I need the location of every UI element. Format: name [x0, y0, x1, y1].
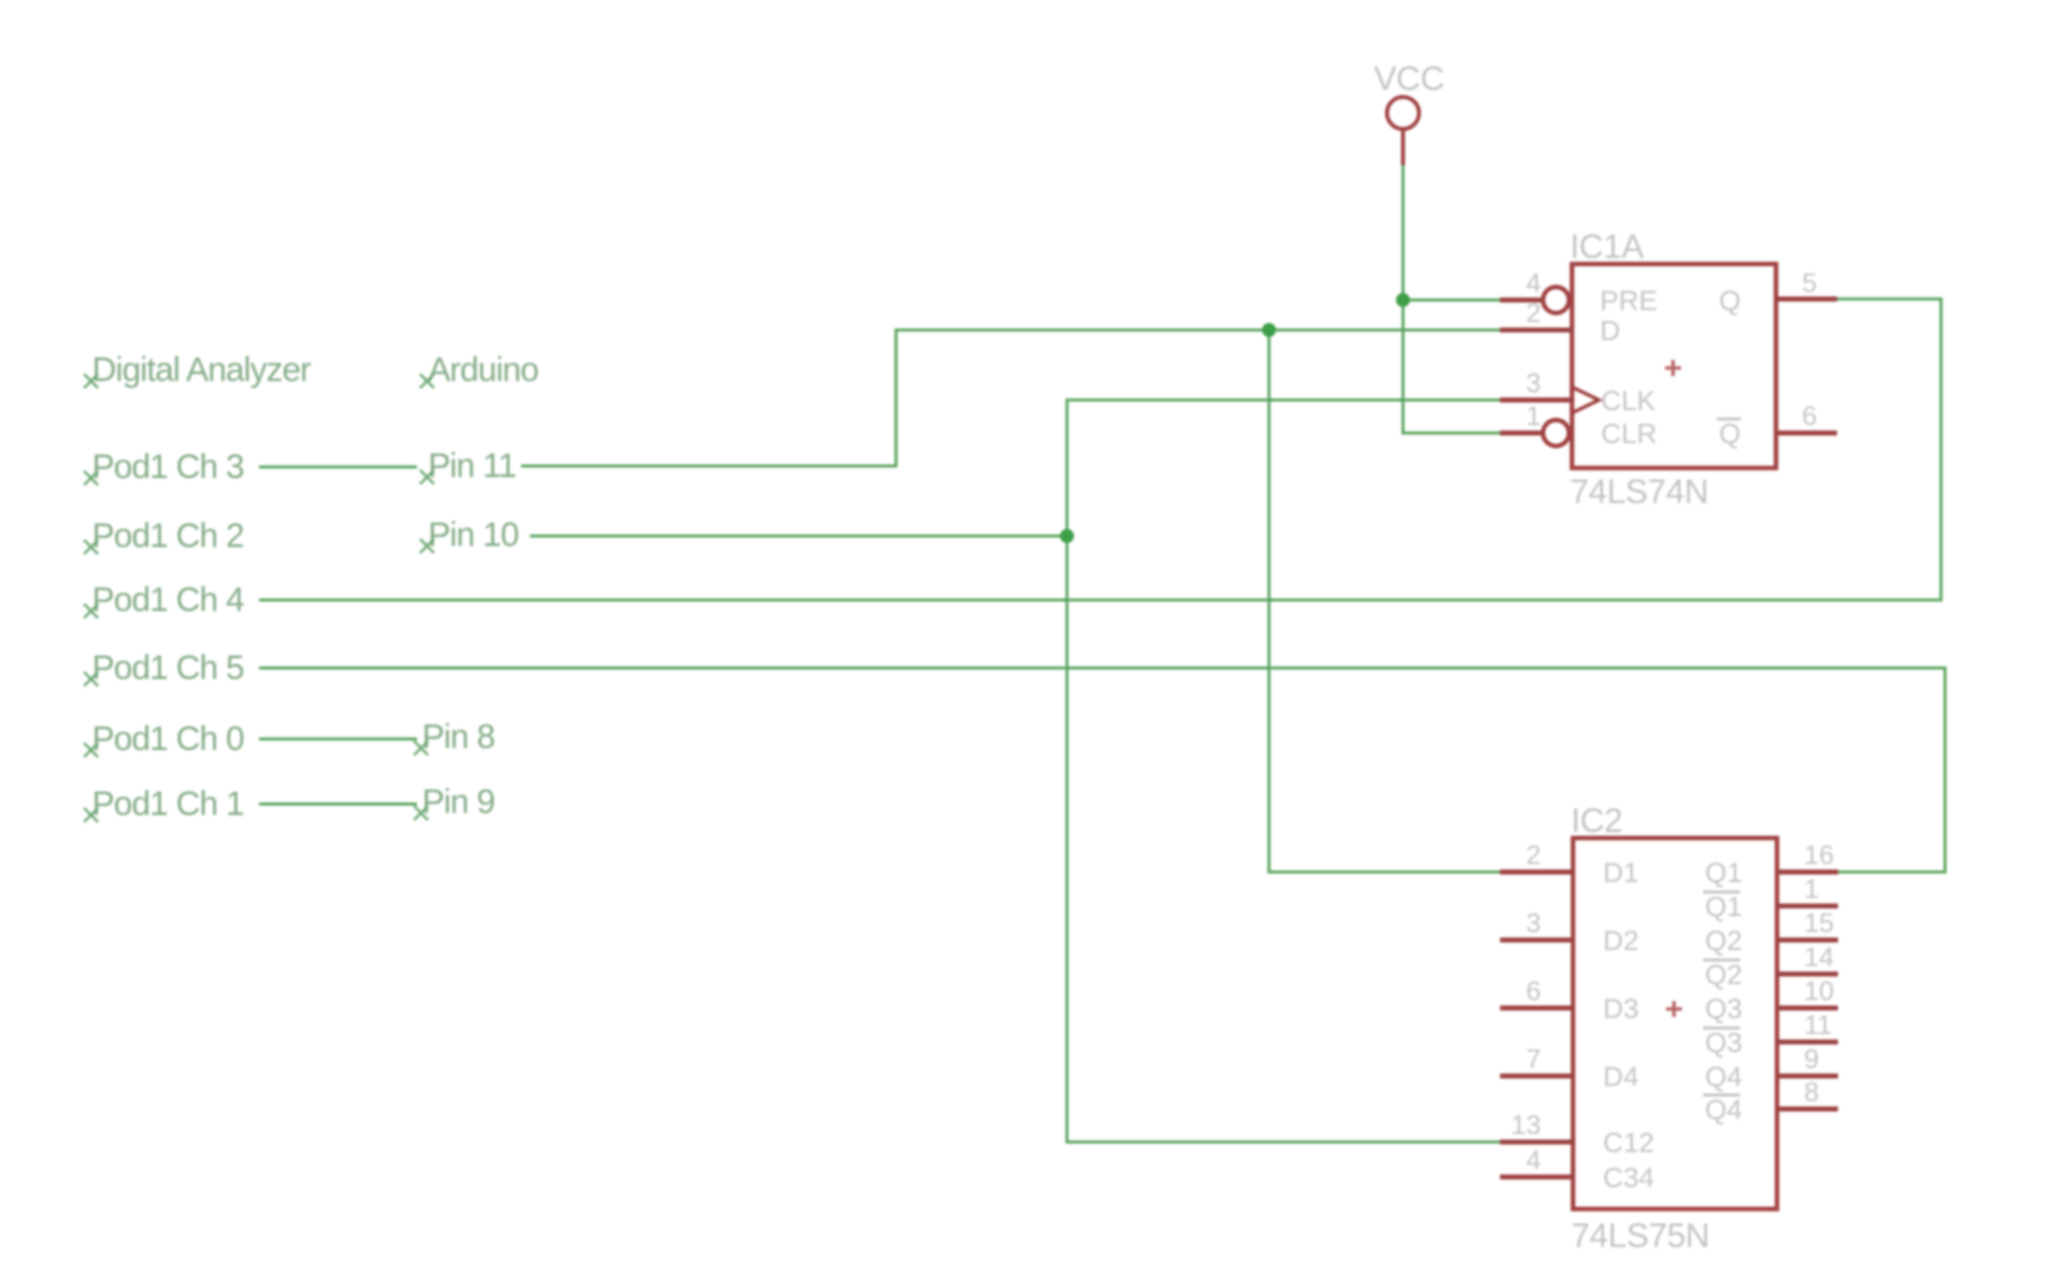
svg-text:Pod1 Ch 3: Pod1 Ch 3: [92, 448, 244, 486]
svg-text:2: 2: [1526, 840, 1541, 870]
wire Pod1 Ch 1 to Pin 9: [259, 803, 417, 806]
svg-text:Pod1 Ch 0: Pod1 Ch 0: [92, 720, 244, 758]
svg-text:Q4: Q4: [1705, 1094, 1742, 1125]
node origin cross Pin 8: [414, 741, 428, 755]
svg-text:16: 16: [1804, 840, 1834, 870]
svg-text:VCC: VCC: [1374, 60, 1444, 98]
svg-text:Pin 10: Pin 10: [428, 516, 518, 554]
wire Pin 10 to junction: [530, 535, 1067, 538]
wire Pod1 Ch 4 to Q of IC1A: [259, 299, 1941, 600]
wire CLK/C12 vertical: [1067, 400, 1502, 1142]
pin names IC2 left: [1603, 857, 1654, 1193]
svg-text:Pin 9: Pin 9: [422, 783, 495, 821]
svg-text:Arduino: Arduino: [428, 351, 538, 389]
node origin cross Pod1 Ch 1: [84, 808, 98, 822]
node origin cross Pin 11: [420, 470, 434, 484]
svg-text:74LS75N: 74LS75N: [1571, 1217, 1709, 1255]
svg-text:Q4: Q4: [1705, 1061, 1742, 1092]
node origin cross Digital Analyzer: [84, 374, 98, 388]
svg-text:7: 7: [1526, 1044, 1541, 1074]
power VCC symbol: [1387, 97, 1419, 165]
svg-text:13: 13: [1511, 1110, 1541, 1140]
pin numbers IC2 right: [1804, 840, 1834, 1107]
svg-text:Q1: Q1: [1705, 891, 1742, 922]
svg-text:Q2: Q2: [1705, 959, 1742, 990]
node origin cross Pod1 Ch 0: [84, 743, 98, 757]
svg-text:8: 8: [1804, 1077, 1819, 1107]
svg-text:PRE: PRE: [1600, 285, 1658, 316]
svg-text:10: 10: [1804, 976, 1834, 1006]
svg-text:Q: Q: [1719, 418, 1741, 449]
svg-text:IC1A: IC1A: [1570, 228, 1644, 266]
wire Pin 11 to D of IC1A: [521, 330, 1502, 466]
svg-text:Q3: Q3: [1705, 1027, 1742, 1058]
node origin cross Pod1 Ch 4: [84, 604, 98, 618]
svg-text:Pin 8: Pin 8: [422, 718, 495, 756]
node origin cross Pod1 Ch 3: [84, 471, 98, 485]
svg-text:D: D: [1600, 315, 1620, 346]
svg-text:5: 5: [1802, 268, 1817, 298]
node origin cross Pin 10: [420, 539, 434, 553]
svg-text:2: 2: [1526, 298, 1541, 328]
wire Pod1 Ch 3 to Pin 11: [259, 466, 417, 469]
svg-text:Q1: Q1: [1705, 857, 1742, 888]
svg-text:Digital Analyzer: Digital Analyzer: [92, 351, 311, 389]
wire Pod1 Ch 5 to Q1 of IC2: [259, 668, 1945, 872]
wire branch to D1 of IC2: [1269, 330, 1502, 872]
latch IC2 box 74LS75N: [1573, 838, 1777, 1209]
svg-text:6: 6: [1526, 976, 1541, 1006]
svg-text:CLK: CLK: [1601, 385, 1656, 416]
svg-text:9: 9: [1804, 1044, 1819, 1074]
pin names IC2 right: [1705, 857, 1742, 1125]
svg-text:15: 15: [1804, 908, 1834, 938]
svg-text:4: 4: [1526, 268, 1541, 298]
svg-text:6: 6: [1802, 401, 1817, 431]
pin stubs IC2 left: [1500, 872, 1573, 1177]
svg-text:1: 1: [1526, 401, 1541, 431]
svg-text:1: 1: [1804, 874, 1819, 904]
polarity mark IC1A: [1665, 360, 1681, 376]
op-amp IC1A box 74LS74N: [1543, 264, 1776, 468]
pin numbers IC2 left: [1511, 840, 1541, 1175]
svg-text:Pod1 Ch 4: Pod1 Ch 4: [92, 581, 244, 619]
svg-text:D1: D1: [1603, 857, 1639, 888]
pin numbers IC1A: [1526, 268, 1541, 431]
svg-text:CLR: CLR: [1601, 418, 1657, 449]
wire Pod1 Ch 0 to Pin 8: [259, 738, 417, 741]
pin names IC1A: [1600, 285, 1741, 449]
svg-text:C34: C34: [1603, 1162, 1654, 1193]
wire VCC net: [1403, 163, 1502, 433]
svg-text:C12: C12: [1603, 1127, 1654, 1158]
overlines Qbar IC2: [1703, 892, 1740, 1095]
svg-text:Pin 11: Pin 11: [428, 447, 516, 485]
svg-text:Pod1 Ch 5: Pod1 Ch 5: [92, 649, 244, 687]
svg-text:11: 11: [1804, 1010, 1832, 1040]
pin stubs IC2 right: [1777, 872, 1838, 1109]
node origin cross Pod1 Ch 2: [84, 540, 98, 554]
node junction CLK net: [1060, 529, 1074, 543]
node junction D net: [1262, 323, 1276, 337]
polarity mark IC2: [1666, 1001, 1682, 1017]
svg-text:Pod1 Ch 2: Pod1 Ch 2: [92, 517, 244, 555]
node origin cross Pin 9: [414, 806, 428, 820]
svg-text:Pod1 Ch 1: Pod1 Ch 1: [92, 785, 244, 823]
svg-text:74LS74N: 74LS74N: [1570, 473, 1708, 511]
wire VCC to PRE: [1403, 299, 1502, 302]
svg-text:Q2: Q2: [1705, 925, 1742, 956]
svg-text:3: 3: [1526, 908, 1541, 938]
svg-text:D3: D3: [1603, 993, 1639, 1024]
svg-text:14: 14: [1804, 942, 1834, 972]
pin stubs IC1A: [1500, 299, 1837, 433]
svg-text:4: 4: [1526, 1145, 1541, 1175]
svg-text:D2: D2: [1603, 925, 1639, 956]
svg-text:IC2: IC2: [1571, 802, 1622, 840]
node origin cross Arduino: [420, 374, 434, 388]
svg-text:Q3: Q3: [1705, 993, 1742, 1024]
node origin cross Pod1 Ch 5: [84, 672, 98, 686]
overline Qbar IC1A: [1717, 418, 1741, 421]
svg-text:D4: D4: [1603, 1061, 1639, 1092]
node junction VCC net: [1396, 293, 1410, 307]
svg-text:Q: Q: [1719, 285, 1741, 316]
svg-text:3: 3: [1526, 368, 1541, 398]
